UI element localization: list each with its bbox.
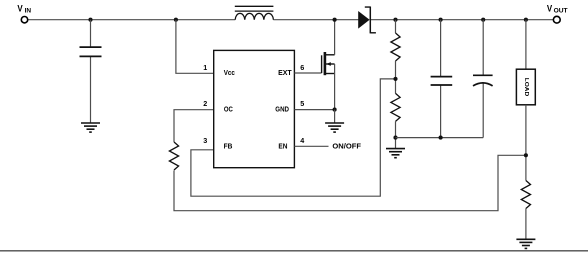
svg-text:3: 3	[203, 136, 207, 145]
wire divider mid	[395, 61, 397, 93]
resistor sense	[521, 181, 530, 209]
wire cap bottom rail	[396, 137, 484, 139]
load box	[516, 69, 535, 105]
svg-text:Vcc: Vcc	[224, 69, 235, 77]
wire divider top lead	[395, 20, 397, 33]
terminal VIN	[17, 3, 31, 23]
node sense junction	[524, 153, 528, 157]
node cap2 top junction	[481, 18, 485, 22]
svg-text:LOAD: LOAD	[523, 78, 529, 97]
wire top rail	[28, 19, 553, 21]
wire gnd stem	[334, 110, 336, 123]
node load top junction	[524, 18, 528, 22]
resistor divider lower	[391, 93, 400, 121]
svg-text:GND: GND	[275, 106, 289, 114]
node divider top junction	[393, 18, 397, 22]
svg-text:2: 2	[203, 99, 207, 108]
node pin5 junction	[333, 108, 337, 112]
svg-text:1: 1	[203, 63, 207, 72]
node drain junction	[333, 18, 337, 22]
wire cap2 leads	[482, 20, 484, 138]
wire cap1 leads	[440, 20, 442, 138]
svg-text:IN: IN	[25, 8, 32, 15]
svg-text:6: 6	[300, 63, 304, 72]
wire pin 5 GND	[294, 109, 334, 111]
wire load bottom lead	[525, 105, 527, 181]
ground divider	[386, 149, 405, 158]
wire source down to gnd pin	[334, 64, 336, 110]
node cap1 bottom junction	[439, 136, 443, 140]
capacitor output C1	[431, 77, 453, 85]
resistor OC sense	[169, 142, 178, 170]
node input-cap junction	[88, 18, 92, 22]
svg-text:EN: EN	[278, 143, 287, 151]
capacitor output C2 polarized	[473, 75, 493, 86]
svg-text:ON/OFF: ON/OFF	[332, 142, 361, 151]
svg-text:V: V	[17, 3, 23, 14]
wire pin 2 OC branch	[174, 110, 214, 142]
svg-text:EXT: EXT	[278, 69, 292, 77]
ground IC	[325, 123, 344, 132]
wire pin 6 EXT to gate	[294, 72, 321, 74]
wire pin 3 FB loop	[191, 79, 396, 196]
resistor divider upper	[391, 33, 400, 61]
svg-text:4: 4	[300, 136, 304, 145]
svg-text:OUT: OUT	[554, 8, 569, 15]
wire load top lead	[525, 20, 527, 69]
transistor Q1 MOSFET	[322, 52, 335, 75]
node cap1 top junction	[439, 18, 443, 22]
node divider bottom junction	[393, 136, 397, 140]
inductor L	[235, 6, 274, 19]
wire divider bottom lead	[395, 121, 397, 148]
terminal VOUT	[547, 3, 569, 23]
svg-text:OC: OC	[224, 106, 233, 114]
wire input cap stem	[90, 20, 92, 123]
wire page footer line	[0, 250, 588, 252]
node divider mid junction	[393, 77, 397, 81]
node Vcc branch junction	[174, 18, 178, 22]
wire pin 4 EN stub	[294, 145, 328, 147]
IC U1 controller box	[214, 50, 295, 167]
svg-text:5: 5	[300, 99, 304, 108]
diode D1 schottky	[358, 7, 376, 34]
wire sense resistor to ground	[525, 209, 527, 240]
capacitor input C	[80, 47, 102, 56]
wire drain to top rail	[334, 20, 336, 55]
svg-text:V: V	[547, 3, 553, 14]
wire OC resistor to bottom rail	[174, 155, 526, 210]
svg-text:FB: FB	[224, 143, 233, 151]
ground input cap	[81, 123, 100, 132]
wire Vcc branch to pin 1	[176, 20, 214, 74]
ground load	[516, 239, 535, 248]
